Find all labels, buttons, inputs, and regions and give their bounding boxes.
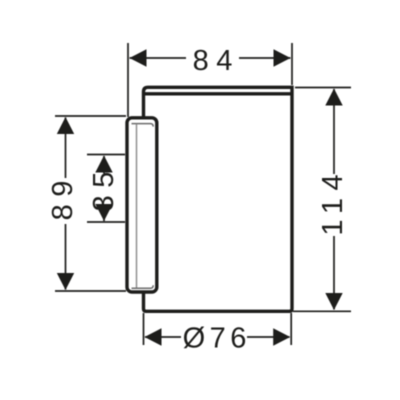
svg-text:35: 35: [88, 164, 120, 211]
svg-text:Ø76: Ø76: [183, 322, 251, 354]
svg-text:89: 89: [47, 173, 79, 220]
svg-text:114: 114: [317, 167, 349, 236]
svg-text:84: 84: [193, 45, 240, 77]
